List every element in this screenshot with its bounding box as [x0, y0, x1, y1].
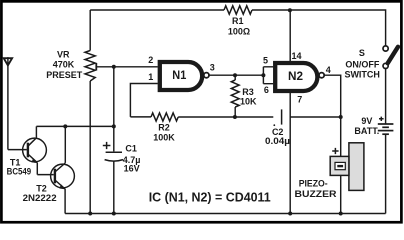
svg-text:10K: 10K — [240, 97, 257, 107]
label R3 — [242, 87, 254, 97]
svg-text:SWITCH: SWITCH — [344, 70, 380, 80]
node: pin7 / bottom rail — [288, 212, 292, 216]
label T1 — [10, 158, 21, 168]
node: N1 out / R3 top — [233, 73, 237, 77]
svg-text:ON/OFF: ON/OFF — [345, 59, 379, 69]
resistor R2 — [151, 113, 178, 121]
label PRESET — [46, 70, 83, 80]
svg-text:9V: 9V — [361, 116, 372, 126]
wire: N2 pin14 from top rail — [289, 10, 291, 61]
svg-text:N2: N2 — [288, 69, 303, 83]
label pin 1 — [148, 72, 153, 82]
capacitor C1 — [105, 152, 123, 213]
svg-text:2N2222: 2N2222 — [23, 193, 57, 203]
label SWITCH — [344, 70, 380, 80]
battery plus sign — [379, 117, 384, 121]
label pin 5 — [263, 56, 268, 66]
svg-text:100K: 100K — [153, 132, 175, 142]
label R2 — [158, 123, 170, 133]
label pin 6 — [264, 85, 269, 95]
svg-text:R2: R2 — [158, 123, 170, 133]
label pin 4 — [326, 65, 331, 75]
label R1 — [232, 16, 244, 26]
wire: collector rail T1/T2 to C1 line — [36, 125, 113, 127]
svg-text:100Ω: 100Ω — [228, 27, 250, 37]
label 16V — [124, 164, 140, 174]
svg-text:IC (N1, N2) = CD4011: IC (N1, N2) = CD4011 — [149, 190, 271, 205]
svg-text:R1: R1 — [232, 16, 244, 26]
node: buzzer / bottom rail — [339, 212, 343, 216]
svg-text:C1: C1 — [125, 144, 137, 154]
svg-text:6: 6 — [264, 85, 269, 95]
switch S — [383, 46, 398, 69]
node: wiper / C1 line junction — [112, 65, 116, 69]
label S — [359, 48, 365, 58]
NAND gate N1 — [160, 62, 202, 90]
wire: battery to bottom rail — [385, 134, 387, 213]
wire: N1 pin1 from middle rail — [130, 84, 157, 117]
svg-text:0.04µ: 0.04µ — [265, 136, 290, 146]
svg-text:470K: 470K — [53, 60, 75, 70]
svg-text:7: 7 — [297, 95, 302, 105]
svg-text:1: 1 — [148, 72, 153, 82]
piezo buzzer — [330, 143, 364, 191]
label N2 — [288, 69, 303, 83]
label PIEZO- — [299, 179, 328, 189]
N2 input bracket pins 5,6 — [263, 67, 273, 84]
svg-text:4: 4 — [326, 65, 331, 75]
svg-text:14: 14 — [291, 51, 301, 61]
label pin 2 — [148, 55, 153, 65]
wire: N2 pin7 to bottom rail — [289, 93, 291, 214]
svg-text:S: S — [359, 48, 365, 58]
label 100Ω — [228, 27, 250, 37]
label 2N2222 — [23, 193, 57, 203]
wire: wiper junction to N1 pin2 — [114, 66, 158, 68]
label pin 14 — [291, 51, 301, 61]
label C2 — [272, 127, 284, 137]
label N1 — [172, 68, 186, 82]
wire: bottom rail — [65, 213, 386, 215]
label BC549 — [7, 167, 32, 177]
wire: top rail from R1 to switch, corner down — [252, 10, 386, 46]
transistor T1 — [23, 126, 47, 174]
N2 output bubble — [319, 73, 324, 78]
label 9V — [361, 116, 372, 126]
wire: switch to battery — [385, 69, 387, 125]
wire: T1 emitter to T2 base — [37, 174, 53, 176]
node: collector rail / C1 line junction — [112, 124, 116, 128]
node: VR / bottom rail — [88, 212, 92, 216]
node: R3 bottom junction — [233, 115, 237, 119]
transistor T2 — [51, 126, 75, 213]
battery 9V — [378, 124, 394, 134]
label 100K — [153, 132, 175, 142]
svg-text:3: 3 — [210, 62, 215, 72]
wire: VR bottom to bottom rail — [89, 81, 91, 214]
capacitor C2 — [273, 109, 281, 126]
label BUZZER — [295, 189, 338, 199]
label BATT. — [354, 126, 379, 136]
svg-text:PIEZO-: PIEZO- — [299, 179, 328, 189]
label 470K — [53, 60, 75, 70]
svg-text:BC549: BC549 — [7, 167, 32, 177]
wire: N1 output to N2 input — [209, 74, 263, 76]
wire: top rail from VR top to R1 — [90, 9, 224, 11]
label pin 3 — [210, 62, 215, 72]
svg-text:PRESET: PRESET — [46, 70, 83, 80]
wire: buzzer bottom to bottom rail — [340, 175, 342, 213]
resistor R3 — [231, 75, 239, 117]
C1 plus sign — [103, 142, 111, 149]
preset VR 470K — [85, 10, 114, 81]
label VR — [57, 49, 70, 59]
wire: wiper junction down to C1 — [113, 67, 115, 152]
node: pin4 line / C2 wire junction — [339, 115, 343, 119]
svg-text:5: 5 — [263, 56, 268, 66]
label ON/OFF — [345, 59, 379, 69]
label T2 — [36, 184, 47, 194]
buzzer plus sign — [332, 148, 338, 154]
label pin 7 — [297, 95, 302, 105]
svg-text:2: 2 — [148, 55, 153, 65]
node: N2 input junction — [261, 73, 265, 77]
wire: C2 right side to buzzer line — [290, 116, 341, 118]
svg-text:VR: VR — [57, 49, 70, 59]
antenna — [4, 57, 12, 149]
wire: N2 output to buzzer line — [324, 75, 340, 156]
svg-text:R3: R3 — [242, 87, 254, 97]
label 4.7µ — [123, 155, 141, 165]
wire: R2 to C2 — [178, 116, 273, 118]
svg-text:BUZZER: BUZZER — [295, 189, 338, 199]
N1 output bubble — [204, 73, 209, 78]
resistor R1 — [224, 6, 252, 14]
NAND gate N2 — [275, 63, 317, 91]
node: top rail / pin14 junction — [288, 8, 292, 12]
node: T2 collector junction — [63, 124, 67, 128]
label C1 — [125, 144, 137, 154]
label 10K — [240, 97, 257, 107]
node: C1 / bottom rail — [112, 212, 116, 216]
svg-text:N1: N1 — [172, 68, 186, 82]
label IC (N1, N2) = CD4011 — [149, 190, 271, 205]
label 0.04µ — [265, 136, 290, 146]
svg-text:16V: 16V — [124, 164, 140, 174]
wire: middle rail pin1 corner to R2 — [130, 116, 151, 118]
svg-text:BATT.: BATT. — [354, 126, 379, 136]
wire: antenna to T1 base — [8, 149, 27, 151]
